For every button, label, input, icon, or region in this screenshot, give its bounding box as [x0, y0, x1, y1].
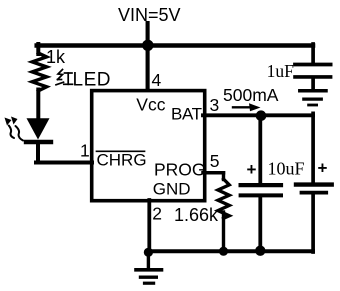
node VIN junction [142, 40, 153, 51]
wire PROG pin 5 [203, 171, 224, 175]
wire BAT pin 3 rail [203, 113, 313, 117]
svg-text:1.66k: 1.66k [174, 205, 219, 225]
wire resistor to LED [36, 90, 40, 120]
arrow 500mA [233, 106, 251, 108]
svg-text:10uF: 10uF [268, 159, 305, 179]
svg-text:+: + [318, 159, 328, 178]
LED D1 triangle [27, 118, 50, 139]
node ground junction [144, 248, 153, 257]
wire 10uF drop [258, 117, 262, 183]
svg-text:1uF: 1uF [267, 61, 295, 81]
ground main symbol [136, 268, 162, 272]
node BAT junction [256, 110, 267, 121]
wire 1uF drop from rail [311, 44, 315, 63]
wire bottom rail [148, 249, 313, 253]
LED light arrow 2 [15, 126, 23, 141]
node 1.66k bottom junction [219, 247, 228, 256]
capacitor C1 1uF top plate [295, 63, 331, 67]
wire corner to pin 1 [36, 161, 92, 165]
svg-text:+: + [247, 160, 257, 179]
svg-text:LED: LED [73, 70, 111, 91]
battery BT1 top plate [296, 182, 332, 186]
wire right vertical to battery [311, 113, 315, 183]
resistor R1 1k zigzag [32, 53, 46, 91]
wire 1.66k to bottom rail [222, 212, 225, 252]
LED D1 cathode bar [26, 140, 51, 144]
wire VIN drop to Vcc pin 4 [146, 23, 150, 90]
battery BT1 bottom plate [302, 191, 327, 195]
wire 10uF to bottom rail [258, 197, 262, 252]
ground 1uF symbol [300, 89, 326, 93]
pin label CHRG overline [97, 150, 145, 152]
wire LED to corner [36, 143, 40, 163]
svg-text:BAT: BAT [171, 105, 202, 124]
svg-text:4: 4 [152, 70, 162, 90]
svg-text:500mA: 500mA [223, 85, 279, 105]
svg-text:CHRG: CHRG [97, 151, 147, 170]
wire 1uF to ground [311, 79, 315, 89]
svg-text:Vcc: Vcc [136, 95, 165, 115]
svg-text:1k: 1k [46, 47, 66, 67]
svg-text:1: 1 [80, 141, 90, 161]
svg-text:3: 3 [210, 95, 220, 115]
resistor R2 1.66k zigzag [218, 179, 229, 218]
node 10uF bottom junction [255, 246, 265, 256]
op-amp U1 IC body [92, 91, 205, 201]
svg-text:5: 5 [210, 151, 220, 171]
wire left drop from rail to resistor [36, 44, 40, 54]
wire pin 2 GND drop [147, 200, 151, 253]
capacitor C2 10uF top plate [241, 183, 281, 187]
svg-text:2: 2 [152, 203, 162, 223]
LED light arrow 1 [9, 126, 14, 139]
svg-text:GND: GND [153, 180, 191, 199]
svg-text:PROG: PROG [154, 160, 206, 180]
wire top rail [37, 43, 313, 48]
wire battery to bottom rail [311, 195, 315, 253]
wire ground stub [147, 252, 150, 267]
capacitor C2 10uF bottom plate [241, 193, 281, 197]
label red LED (Chinese char drawn) [56, 70, 73, 85]
capacitor C1 1uF bottom plate [295, 75, 331, 79]
